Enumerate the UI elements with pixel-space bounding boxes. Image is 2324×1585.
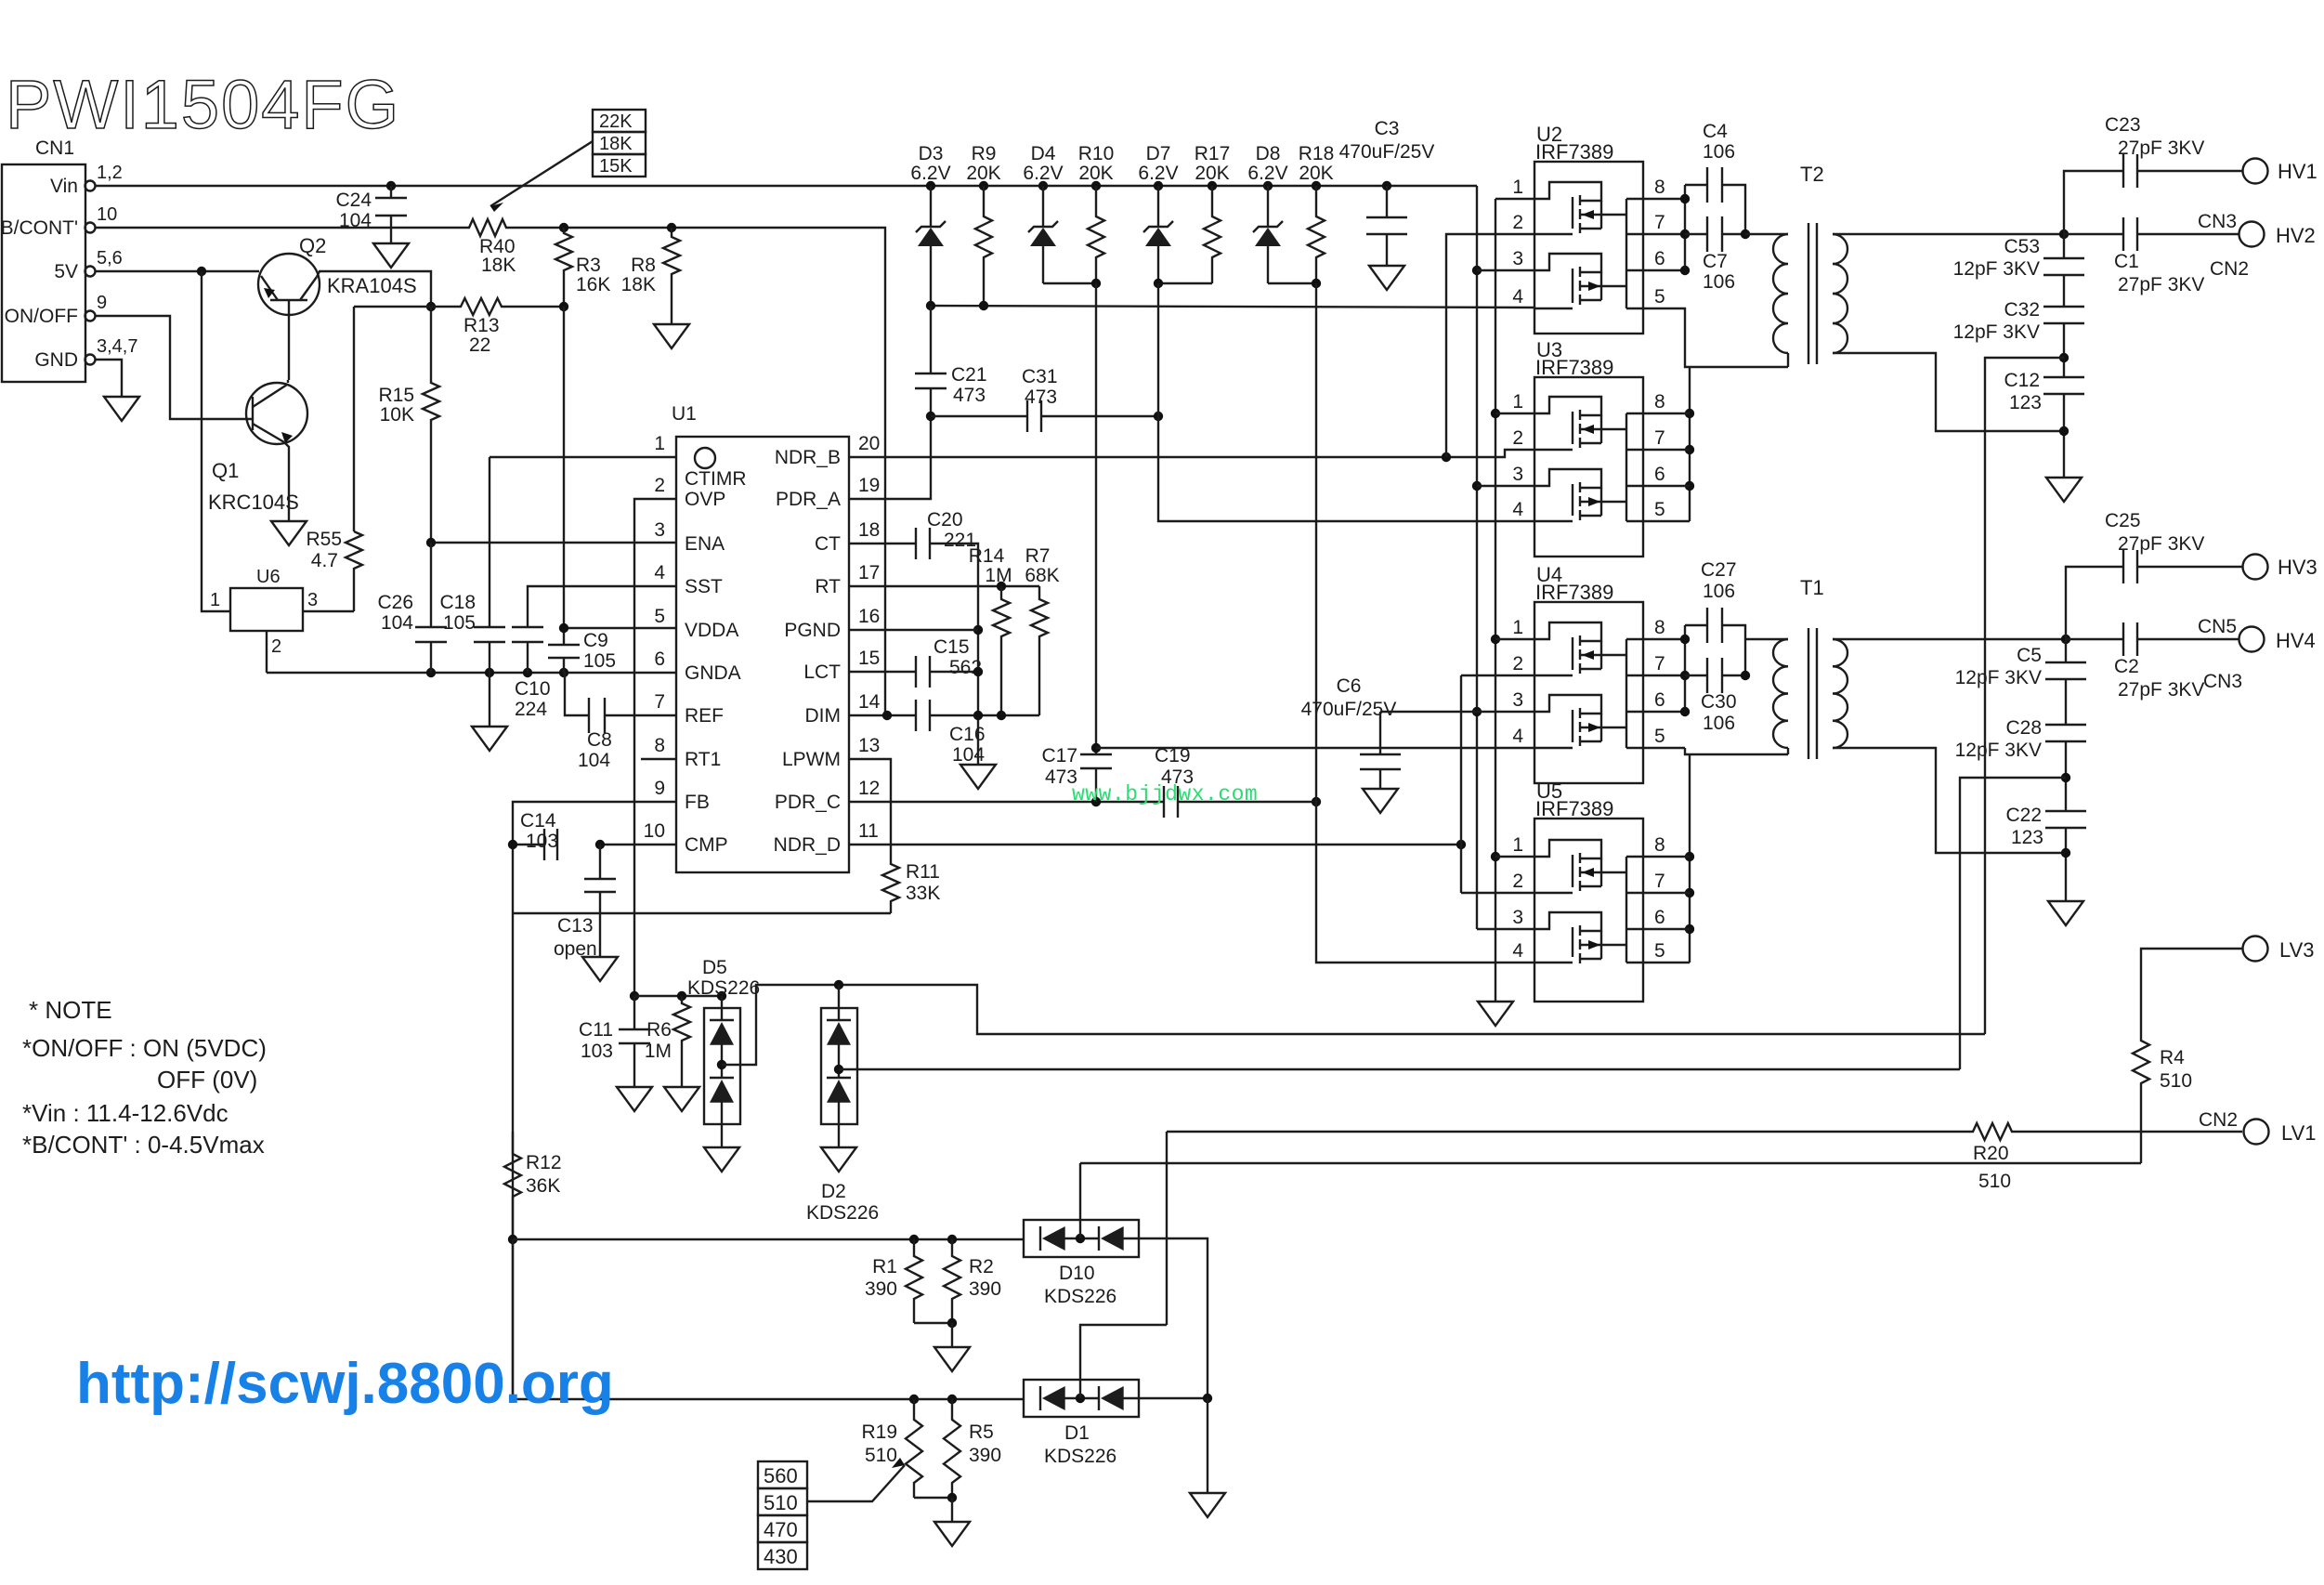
connector HV1 <box>2243 159 2268 184</box>
svg-text:R10: R10 <box>1078 143 1115 164</box>
svg-text:C6: C6 <box>1337 675 1362 697</box>
svg-text:C19: C19 <box>1155 745 1191 766</box>
svg-text:8: 8 <box>1654 391 1665 413</box>
svg-text:http://scwj.8800.org: http://scwj.8800.org <box>76 1352 614 1416</box>
connector LV1 <box>2244 1120 2269 1145</box>
svg-text:8: 8 <box>1654 834 1665 856</box>
resistor R7 68K <box>1031 586 1048 715</box>
svg-text:IRF7389: IRF7389 <box>1535 140 1613 164</box>
resistor R8 <box>663 228 680 324</box>
ground below Q1 <box>271 521 307 545</box>
wire D8/R18 junction <box>1268 282 1316 284</box>
node C10 gnd <box>523 668 532 677</box>
resistor R13 <box>431 298 564 315</box>
svg-text:C27: C27 <box>1701 559 1737 581</box>
node R5 top <box>947 1395 957 1404</box>
node C22 top <box>2061 773 2070 782</box>
svg-text:20K: 20K <box>1299 163 1333 184</box>
wire D1 center riser <box>1080 1325 1167 1398</box>
svg-text:7: 7 <box>1654 871 1665 892</box>
node OVP net <box>630 991 639 1001</box>
capacitor C22 123 <box>2045 811 2086 828</box>
capacitor C10 on SST <box>528 586 676 627</box>
node D7 bottom <box>1154 279 1163 288</box>
svg-text:LCT: LCT <box>803 662 841 683</box>
svg-text:C16: C16 <box>949 724 986 745</box>
svg-text:12pF 3KV: 12pF 3KV <box>1953 258 2040 280</box>
svg-text:8: 8 <box>1654 617 1665 638</box>
svg-text:6: 6 <box>1654 464 1665 485</box>
node DIM B/CONT <box>882 711 892 720</box>
svg-text:CN2: CN2 <box>2210 258 2249 280</box>
svg-text:6: 6 <box>1654 248 1665 269</box>
svg-text:REF: REF <box>685 705 724 727</box>
resistor R40 <box>463 219 564 236</box>
capacitor C2 27pF 3KV <box>2066 638 2123 640</box>
wire Q2 collector to R13 <box>317 271 320 277</box>
svg-text:KDS226: KDS226 <box>687 977 760 999</box>
svg-text:C17: C17 <box>1041 745 1077 766</box>
svg-text:CMP: CMP <box>685 834 728 856</box>
svg-text:12pF 3KV: 12pF 3KV <box>1953 321 2040 343</box>
capacitor C53 12pF 3KV <box>2063 234 2065 258</box>
svg-text:1M: 1M <box>985 565 1012 586</box>
ground below R8 <box>654 324 689 348</box>
resistor R1 390 <box>906 1239 922 1323</box>
ground below C12 <box>2046 478 2082 502</box>
wire R19/R5 bottoms <box>914 1497 952 1499</box>
svg-text:C32: C32 <box>2004 299 2040 321</box>
svg-text:D4: D4 <box>1031 143 1056 164</box>
svg-text:C7: C7 <box>1703 251 1728 272</box>
wire D10 line <box>513 1238 1024 1240</box>
node VDDA <box>559 623 568 633</box>
arrow to R40 <box>490 141 593 206</box>
svg-text:22K: 22K <box>599 111 633 132</box>
svg-text:D10: D10 <box>1059 1263 1095 1284</box>
svg-text:473: 473 <box>953 385 986 406</box>
capacitor C20 on CT <box>849 543 916 544</box>
node NDR_B branch <box>1442 452 1451 462</box>
svg-text:CN1: CN1 <box>35 138 74 159</box>
svg-text:9: 9 <box>654 778 665 799</box>
svg-text:C5: C5 <box>2017 645 2042 666</box>
wire OVP vertical <box>634 499 676 996</box>
svg-text:R3: R3 <box>576 255 601 276</box>
svg-text:C22: C22 <box>2005 805 2042 826</box>
wire DIM row <box>849 714 916 716</box>
svg-text:9: 9 <box>97 293 107 313</box>
wire U5 drains to T1 primary bottom <box>1689 754 1691 963</box>
resistor R2 390 <box>944 1239 960 1323</box>
svg-text:104: 104 <box>381 612 413 634</box>
svg-text:6.2V: 6.2V <box>910 163 950 184</box>
connector HV3 <box>2243 555 2268 580</box>
svg-text:6.2V: 6.2V <box>1138 163 1178 184</box>
wire B/CONT to DIM <box>564 228 885 715</box>
svg-text:R1: R1 <box>872 1256 897 1277</box>
capacitor C11 103 <box>633 996 635 1029</box>
svg-text:103: 103 <box>581 1041 613 1062</box>
node C22 bottom <box>2061 848 2070 858</box>
svg-text:4: 4 <box>1512 499 1523 520</box>
svg-text:C14: C14 <box>520 810 556 832</box>
svg-text:3,4,7: 3,4,7 <box>97 336 137 357</box>
svg-text:105: 105 <box>443 612 476 634</box>
svg-text:*Vin : 11.4-12.6Vdc: *Vin : 11.4-12.6Vdc <box>22 1099 228 1127</box>
ground below D5 <box>704 1147 739 1172</box>
wire Q1 emitter to ground <box>285 443 289 521</box>
svg-text:*ON/OFF : ON (5VDC): *ON/OFF : ON (5VDC) <box>22 1034 267 1062</box>
svg-text:4.7: 4.7 <box>311 550 338 571</box>
wire pin1 source bus <box>1495 199 1496 1002</box>
wire U3 drains to T2 primary bottom <box>1689 367 1691 521</box>
wire drain bus <box>1643 198 1685 200</box>
svg-text:106: 106 <box>1703 581 1735 602</box>
svg-text:HV1: HV1 <box>2278 160 2317 183</box>
svg-text:1: 1 <box>1512 617 1523 638</box>
wire R3 to VDDA <box>563 307 565 628</box>
svg-text:16K: 16K <box>576 274 610 295</box>
wire OVP net bus <box>634 995 722 997</box>
svg-text:104: 104 <box>952 744 985 766</box>
svg-text:20K: 20K <box>1078 163 1113 184</box>
svg-text:FB: FB <box>685 792 710 813</box>
wire C12-top to D5 sense <box>1985 358 2064 1034</box>
svg-text:R15: R15 <box>378 385 414 406</box>
CTIMR circle <box>695 448 715 468</box>
wire D4/R10 junction <box>1043 282 1096 284</box>
svg-text:C15: C15 <box>934 636 970 658</box>
wire pin3 row U4 <box>1477 711 1534 713</box>
node R9 bottom <box>979 301 988 310</box>
svg-text:4: 4 <box>1512 940 1523 962</box>
svg-text:C4: C4 <box>1703 121 1728 142</box>
svg-text:C20: C20 <box>927 509 963 531</box>
svg-text:C8: C8 <box>587 729 612 751</box>
wire C4/C7 to T2 primary <box>1745 233 1788 235</box>
svg-text:1: 1 <box>1512 391 1523 413</box>
node R8 top <box>667 223 676 232</box>
wire LV1 column <box>1166 1132 1168 1325</box>
svg-text:U6: U6 <box>256 567 281 587</box>
node R2 bottom <box>947 1318 957 1328</box>
wire T2 secondary bottom <box>1833 353 2064 431</box>
wire NDR_B long <box>849 450 1534 457</box>
svg-text:510: 510 <box>1978 1171 2011 1192</box>
svg-text:Vin: Vin <box>50 176 78 197</box>
svg-text:KDS226: KDS226 <box>806 1202 879 1224</box>
svg-text:R2: R2 <box>969 1256 994 1277</box>
capacitor C16 on DIM <box>916 700 930 731</box>
connector HV2 <box>2239 222 2265 247</box>
node D1 out <box>1203 1394 1212 1403</box>
wire D2 center to C22 sense <box>839 1068 1960 1070</box>
wire PGND row <box>849 629 978 631</box>
capacitor C14 on CMP <box>600 844 676 845</box>
svg-text:18K: 18K <box>481 255 516 276</box>
node U3 pin1 <box>1491 409 1500 418</box>
node U5 pin1 <box>1491 852 1500 861</box>
node R19 top <box>909 1395 919 1404</box>
svg-text:KDS226: KDS226 <box>1044 1286 1116 1307</box>
svg-text:D1: D1 <box>1064 1422 1090 1444</box>
svg-text:5: 5 <box>654 606 665 627</box>
wire B/CONT <box>96 227 463 229</box>
node NDR_D branch <box>1456 840 1466 849</box>
wire CTIMR to C18 <box>490 456 676 458</box>
svg-text:SST: SST <box>685 576 723 597</box>
svg-text:470uF/25V: 470uF/25V <box>1301 699 1397 720</box>
node U4 pin4 gate <box>1091 743 1101 753</box>
svg-text:D2: D2 <box>821 1181 846 1202</box>
svg-text:GND: GND <box>34 349 78 371</box>
svg-text:C2: C2 <box>2114 656 2139 677</box>
svg-text:C18: C18 <box>439 592 476 613</box>
wire R13 to R55 column <box>354 306 431 308</box>
svg-text:4: 4 <box>1512 286 1523 308</box>
ground below C6 <box>1363 789 1398 813</box>
svg-text:KRC104S: KRC104S <box>208 491 299 514</box>
svg-text:C24: C24 <box>335 190 372 211</box>
wire T1 secondary top <box>1833 638 2066 640</box>
wire U4 pin4 row <box>1096 747 1534 749</box>
svg-text:R13: R13 <box>463 315 500 336</box>
capacitor C21 on PDR_A <box>930 306 932 373</box>
svg-text:VDDA: VDDA <box>685 620 738 641</box>
svg-text:8: 8 <box>1654 177 1665 198</box>
svg-text:LV1: LV1 <box>2281 1121 2317 1145</box>
capacitor C25 27pF 3KV <box>2123 550 2137 583</box>
svg-text:C31: C31 <box>1022 366 1058 387</box>
svg-text:D7: D7 <box>1146 143 1171 164</box>
svg-text:1: 1 <box>654 433 665 454</box>
svg-text:C28: C28 <box>2005 717 2042 739</box>
svg-text:*B/CONT' : 0-4.5Vmax: *B/CONT' : 0-4.5Vmax <box>22 1131 265 1159</box>
svg-text:33K: 33K <box>906 883 940 904</box>
svg-text:C26: C26 <box>377 592 413 613</box>
capacitor C9 <box>563 628 565 645</box>
wire Vin to pin3 bus <box>1476 186 1478 929</box>
svg-text:2: 2 <box>1512 653 1523 675</box>
svg-text:6.2V: 6.2V <box>1023 163 1063 184</box>
svg-text:5: 5 <box>1654 940 1665 962</box>
svg-text:Q2: Q2 <box>299 234 326 257</box>
wire T1 secondary bottom <box>1833 748 2066 853</box>
ground below C22 <box>2048 901 2083 925</box>
node Q2-R13 <box>426 302 436 311</box>
node D2 top <box>834 980 843 989</box>
svg-text:3: 3 <box>1512 464 1523 485</box>
node R14 top <box>997 582 1006 591</box>
ground below R1/R2 <box>934 1347 970 1371</box>
svg-text:R12: R12 <box>526 1152 562 1173</box>
wire D5 center to C12 sense <box>722 985 1985 1065</box>
svg-text:R5: R5 <box>969 1421 994 1443</box>
wire ENA row <box>431 542 676 544</box>
node ENA <box>426 538 436 547</box>
resistor R3 <box>555 228 572 307</box>
node C18 gnd <box>485 668 494 677</box>
wire to C23 <box>2064 171 2123 234</box>
resistor R4 510 <box>2133 1039 2149 1163</box>
wire RT1 stub <box>641 758 676 760</box>
connector CN1 <box>2 164 85 382</box>
svg-text:123: 123 <box>2009 392 2042 413</box>
transistor Q2 KRA104S <box>258 254 320 315</box>
svg-text:OFF (0V): OFF (0V) <box>157 1066 257 1094</box>
node R10 bottom <box>1091 279 1101 288</box>
wire VDDA row <box>564 627 676 629</box>
capacitor C13 open <box>599 845 601 879</box>
node D1 center <box>1076 1394 1085 1403</box>
wire R12 column to D1 line <box>512 1239 514 1399</box>
wire C27/C30 to T1 primary <box>1745 638 1788 640</box>
wire D1 out to ground <box>1207 1398 1208 1493</box>
svg-text:C23: C23 <box>2105 114 2141 136</box>
svg-text:RT1: RT1 <box>685 749 721 770</box>
svg-text:C12: C12 <box>2004 370 2040 391</box>
node PDR_C clamp <box>1312 797 1321 806</box>
svg-text:C30: C30 <box>1701 691 1737 713</box>
arrow to R19 <box>807 1465 905 1501</box>
node R6 top <box>677 991 686 1001</box>
wire clamp B to U3 pin4 <box>1158 283 1534 521</box>
capacitor C28 12pF 3KV <box>2045 725 2086 741</box>
svg-text:IRF7389: IRF7389 <box>1535 581 1613 604</box>
wire NDR_D to U4 pin2 and U5 pin2 <box>1460 675 1462 893</box>
node R2 top <box>947 1235 957 1244</box>
resistor R11 33K <box>882 862 899 913</box>
wire D7/R17 junction <box>1158 282 1212 284</box>
wire RT row <box>849 585 1039 587</box>
svg-text:14: 14 <box>858 691 881 713</box>
svg-text:R14: R14 <box>969 545 1005 567</box>
svg-text:U1: U1 <box>672 403 697 425</box>
node C31 junction <box>926 412 935 421</box>
svg-text:CT: CT <box>815 533 841 555</box>
svg-text:Q1: Q1 <box>212 459 239 482</box>
capacitor C27 <box>1685 624 1707 626</box>
node R14 bottom <box>997 711 1006 720</box>
svg-text:IRF7389: IRF7389 <box>1535 797 1613 820</box>
svg-text:CN3: CN3 <box>2198 211 2237 232</box>
wire to ground <box>951 1498 953 1522</box>
svg-text:KDS226: KDS226 <box>1044 1446 1116 1467</box>
capacitor C31 <box>931 415 1027 417</box>
svg-text:27pF 3KV: 27pF 3KV <box>2118 533 2204 555</box>
node C31 right <box>1154 412 1163 421</box>
svg-text:R18: R18 <box>1299 143 1335 164</box>
svg-text:C13: C13 <box>557 915 594 937</box>
svg-text:PWI1504FG: PWI1504FG <box>6 66 400 143</box>
svg-text:3: 3 <box>654 519 665 541</box>
node R1 top <box>909 1235 919 1244</box>
node C16 right <box>973 711 983 720</box>
svg-text:2: 2 <box>1512 212 1523 233</box>
svg-text:R19: R19 <box>861 1421 897 1443</box>
svg-text:123: 123 <box>2011 827 2043 848</box>
svg-text:7: 7 <box>1654 212 1665 233</box>
svg-text:2: 2 <box>271 636 281 657</box>
svg-text:20K: 20K <box>1195 163 1229 184</box>
svg-text:12: 12 <box>858 778 880 799</box>
wire R1/R2 bottoms <box>914 1322 952 1324</box>
svg-text:12pF 3KV: 12pF 3KV <box>1955 740 2042 761</box>
wire LPWM to R11 <box>849 759 891 862</box>
svg-text:* NOTE: * NOTE <box>29 996 112 1024</box>
svg-text:RT: RT <box>815 576 841 597</box>
svg-text:D5: D5 <box>702 957 727 978</box>
svg-text:1: 1 <box>210 590 220 610</box>
node PGND <box>973 625 983 635</box>
svg-text:CN2: CN2 <box>2199 1109 2238 1131</box>
svg-text:5V: 5V <box>54 261 78 282</box>
connector LV3 <box>2243 937 2268 962</box>
svg-text:224: 224 <box>515 699 547 720</box>
svg-text:4: 4 <box>654 562 665 583</box>
svg-text:CN5: CN5 <box>2198 616 2237 637</box>
svg-text:HV2: HV2 <box>2276 224 2316 247</box>
svg-text:R17: R17 <box>1195 143 1231 164</box>
ground below C13 <box>582 957 618 981</box>
svg-text:C21: C21 <box>951 364 987 386</box>
node D10 center <box>1076 1234 1085 1243</box>
wire NDR_D long <box>849 844 1461 845</box>
svg-text:6.2V: 6.2V <box>1247 163 1287 184</box>
svg-text:HV3: HV3 <box>2278 556 2317 579</box>
node D2 center <box>834 1065 843 1074</box>
wire ON/OFF to Q1 base <box>96 316 253 419</box>
ic U6 <box>230 588 303 631</box>
svg-text:3: 3 <box>1512 689 1523 711</box>
svg-text:2: 2 <box>654 475 665 496</box>
svg-text:CTIMR: CTIMR <box>685 468 747 490</box>
resistor R19 510 <box>906 1399 922 1498</box>
svg-text:D3: D3 <box>919 143 944 164</box>
svg-text:R7: R7 <box>1025 545 1051 567</box>
capacitor C1 27pF 3KV <box>2064 233 2123 235</box>
svg-text:18K: 18K <box>621 274 656 295</box>
svg-text:106: 106 <box>1703 713 1735 734</box>
wire NDR_B to U2 pin2 <box>1446 234 1534 457</box>
svg-text:16: 16 <box>858 606 880 627</box>
ground below C24 <box>373 243 409 268</box>
svg-text:PDR_A: PDR_A <box>776 489 841 510</box>
node U4 pin3 feed <box>1472 707 1482 716</box>
capacitor C7 <box>1685 233 1707 235</box>
wire U2 pin3 <box>1477 269 1534 271</box>
svg-text:LV3: LV3 <box>2279 938 2315 962</box>
svg-text:C3: C3 <box>1375 118 1400 139</box>
node C12 bottom <box>2059 426 2069 436</box>
svg-text:C11: C11 <box>579 1019 613 1041</box>
svg-text:3: 3 <box>1512 248 1523 269</box>
wire clamp D vertical <box>1316 283 1534 963</box>
svg-text:17: 17 <box>858 562 880 583</box>
svg-text:6: 6 <box>1654 907 1665 928</box>
svg-text:7: 7 <box>654 691 665 713</box>
svg-text:11: 11 <box>858 820 879 842</box>
svg-text:104: 104 <box>339 210 372 231</box>
svg-text:PDR_C: PDR_C <box>775 792 841 813</box>
wire R11 bottom to FB column <box>513 912 891 914</box>
node R12 bottom <box>508 1235 517 1244</box>
capacitor C4 <box>1685 184 1707 186</box>
svg-text:13: 13 <box>858 735 880 756</box>
ground below C11 <box>617 1087 652 1111</box>
svg-text:OVP: OVP <box>685 489 725 510</box>
